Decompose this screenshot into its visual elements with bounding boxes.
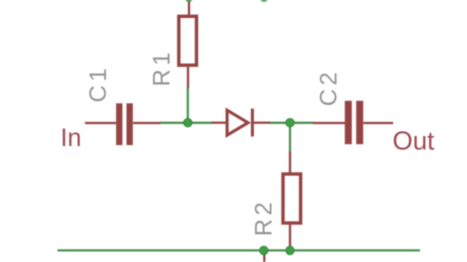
svg-text:C1: C1 xyxy=(85,65,112,103)
svg-text:In: In xyxy=(61,124,82,152)
svg-text:Out: Out xyxy=(393,126,436,156)
svg-text:R2: R2 xyxy=(251,199,278,237)
svg-text:R1: R1 xyxy=(149,49,176,87)
svg-text:C2: C2 xyxy=(316,69,343,107)
